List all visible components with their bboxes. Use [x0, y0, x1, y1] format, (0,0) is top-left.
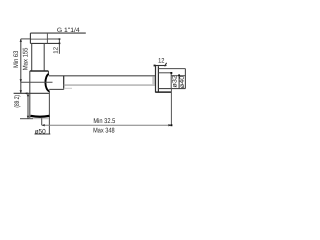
svg-text:Min 63: Min 63 [13, 51, 20, 68]
body and cup left edge [29, 71, 31, 118]
faint shadow under bowl [33, 118, 49, 120]
dimension 12 (right) oblique tick [165, 63, 167, 67]
svg-text:ø32: ø32 [172, 75, 179, 88]
horizontal outlet pipe bottom [64, 84, 156, 86]
G label leader underline merged with flange top [30, 32, 85, 34]
wall stub box [158, 69, 185, 89]
svg-text:Max 348: Max 348 [93, 127, 115, 134]
cup bottom bowl (bold) [31, 115, 50, 118]
bottom dimension line [42, 124, 172, 126]
cup top rim line with left extension [14, 92, 50, 94]
o50 leader vertical [41, 118, 43, 125]
dimension 12 (right) left arrow blob [154, 65, 156, 67]
cup right edge [48, 91, 50, 134]
outlet connector bottom [49, 88, 64, 90]
dimension 12 (top) extension tick [47, 38, 59, 40]
sleeve end vertical [170, 73, 172, 89]
outlet connector right edge [63, 76, 65, 90]
o40 label line top blob [178, 74, 180, 76]
wall rosette plate [156, 66, 159, 93]
extension cup bottom [20, 118, 33, 120]
shoulder step vertical [47, 71, 49, 74]
arrowheads [20, 38, 172, 126]
dark base under plate [155, 91, 171, 93]
o40 label line [178, 75, 180, 89]
ball joint bold left arc [45, 74, 49, 91]
dim line A [20, 39, 22, 93]
inlet nut flange [30, 33, 59, 43]
sleeve top [158, 72, 171, 74]
o50 underline [35, 133, 51, 135]
left dimensions: extension top [21, 38, 31, 40]
dim line C [27, 93, 29, 118]
svg-text:(89.2): (89.2) [14, 95, 21, 108]
extension pipe axis [21, 81, 53, 83]
svg-text:Max 155: Max 155 [22, 47, 29, 70]
inlet vertical pipe [32, 43, 45, 71]
svg-text:12: 12 [52, 46, 59, 53]
wall extension down [170, 89, 172, 126]
svg-text:12: 12 [158, 57, 165, 64]
corner dot dim right end [171, 124, 173, 126]
outlet connector top / pipe top [49, 75, 156, 77]
trap body shoulder [30, 70, 49, 72]
pipe top continuation to wall [171, 75, 185, 77]
dimension 12 (right) underline [154, 65, 167, 67]
corner dot stub [170, 72, 172, 74]
svg-text:Min 32.5: Min 32.5 [93, 118, 115, 125]
faint shadow right of connector bottom [64, 87, 72, 89]
svg-text:ø40: ø40 [179, 75, 186, 88]
gray pipe shading before wall plate [152, 76, 155, 85]
dimension 12 (top) line [58, 39, 60, 54]
